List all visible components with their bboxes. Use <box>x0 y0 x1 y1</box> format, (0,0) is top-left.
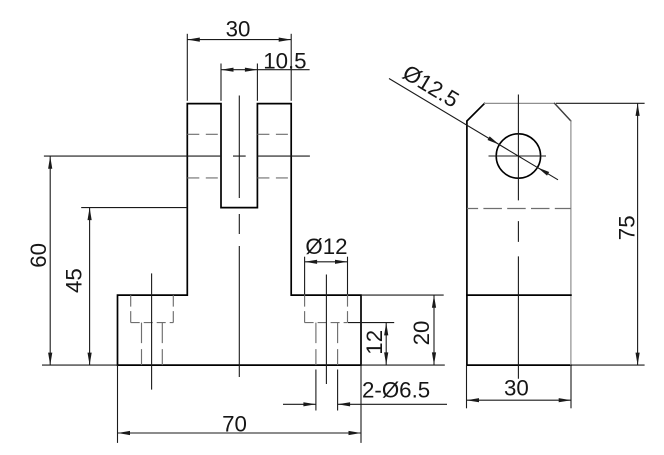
extension of bottom edge right <box>361 364 445 366</box>
dimension line 75 <box>637 103 639 365</box>
side view base-top edge (20 height) <box>467 294 571 296</box>
arrow 10.5 left <box>221 68 234 72</box>
arrow 12 up <box>384 323 388 336</box>
arrow 75 up <box>636 103 640 116</box>
hidden through hole O6.5 right hole left wall <box>315 323 317 366</box>
extension line tower right <box>290 34 292 101</box>
svg-text:10.5: 10.5 <box>263 49 306 74</box>
dimension line 45 <box>89 208 91 366</box>
svg-text:70: 70 <box>222 411 247 436</box>
dimension line 12 <box>385 323 387 365</box>
arrow O12.5 lower <box>536 166 549 176</box>
arrow O12 right <box>335 260 348 264</box>
extension line slot right <box>256 64 258 101</box>
arrow 30 top left <box>187 38 200 42</box>
left hole vertical centerline <box>151 273 153 389</box>
hidden counterbore bottom left hole <box>131 322 174 324</box>
dimension line 70 <box>118 432 362 434</box>
extension line base left down <box>117 365 119 443</box>
extension of bottom edge left <box>42 364 118 366</box>
extension line side left down <box>466 365 468 408</box>
dimension line O12 <box>305 261 348 263</box>
extension line base right down <box>360 365 362 443</box>
arrow 45 down <box>88 353 92 366</box>
extension line tower left <box>186 34 188 101</box>
hidden hole edge lower right wall <box>257 177 291 179</box>
hidden counterbore left wall of right hole <box>304 295 306 323</box>
arrow 30 side left <box>467 398 480 402</box>
arrow O12 left <box>305 260 318 264</box>
extension line side right down <box>570 365 572 408</box>
hidden hole edge lower left wall <box>187 177 221 179</box>
dimension line 2-O6.5 right tail <box>338 403 447 405</box>
arrow 20 up <box>432 295 436 308</box>
extension line counterbore depth (12 level) <box>348 322 394 324</box>
right hole vertical centerline <box>325 275 327 385</box>
arrow 2-O6.5 left <box>303 402 316 406</box>
hidden counterbore left wall of left hole <box>130 295 132 323</box>
arrow 30 side right <box>559 398 572 402</box>
svg-text:60: 60 <box>26 243 51 268</box>
arrow 20 down <box>432 352 436 365</box>
hole circle O12.5 <box>496 134 540 178</box>
circle horizontal centerline <box>489 155 547 157</box>
svg-text:20: 20 <box>409 321 434 346</box>
arrow 30 top right <box>279 38 292 42</box>
side view top edge <box>485 102 555 104</box>
arrow 12 down <box>384 352 388 365</box>
side view right chamfer <box>555 103 571 121</box>
dimension line 30 top <box>187 39 291 41</box>
svg-text:Ø12: Ø12 <box>305 234 347 259</box>
dimension line 20 <box>433 295 435 365</box>
hidden counterbore right wall of right hole <box>347 295 349 323</box>
dimension line 30 side <box>467 399 572 401</box>
extension line 45 level <box>81 207 187 209</box>
hidden through hole O6.5 left hole left wall <box>141 323 143 366</box>
front view horizontal centerline at hole axis (60 level) <box>44 155 310 157</box>
extension line slot left <box>220 64 222 101</box>
arrow 45 up <box>88 208 92 221</box>
arrow 75 down <box>636 353 640 366</box>
svg-text:75: 75 <box>614 215 639 240</box>
extension line side top (75) <box>556 102 645 104</box>
leader line O12.5 <box>389 79 558 180</box>
svg-text:45: 45 <box>62 268 87 293</box>
side view vertical centerline <box>517 95 519 379</box>
hidden counterbore bottom right hole <box>305 322 348 324</box>
svg-text:12: 12 <box>362 330 387 355</box>
side view left edge and left chamfer <box>467 103 571 365</box>
dimension line 60 <box>49 156 51 365</box>
dimension line 2-O6.5 left tail <box>283 403 316 405</box>
arrow 70 right <box>349 431 362 435</box>
svg-text:2-Ø6.5: 2-Ø6.5 <box>362 378 430 403</box>
extension line side bottom (75) <box>571 364 645 366</box>
arrow 60 up <box>48 156 52 169</box>
arrow 2-O6.5 right <box>338 402 351 406</box>
hidden through hole O6.5 left hole right wall <box>161 323 163 366</box>
hidden hole edge upper left wall <box>187 133 221 135</box>
extension of base top edge right <box>361 294 444 296</box>
arrow O12.5 upper <box>488 136 501 146</box>
svg-text:30: 30 <box>226 16 251 41</box>
hidden slot bottom in side view (45 level) <box>467 208 571 210</box>
arrow 10.5 right <box>245 68 258 72</box>
extension line counterbore left <box>304 257 306 294</box>
side view right edge <box>570 121 572 365</box>
hidden counterbore right wall of left hole <box>172 295 174 323</box>
arrow 70 left <box>118 431 131 435</box>
front view outline (T-bracket with open slot) <box>118 104 362 366</box>
svg-text:Ø12.5: Ø12.5 <box>398 60 463 113</box>
hidden hole edge upper right wall <box>257 133 291 135</box>
front view vertical centerline <box>238 96 240 378</box>
extension line counterbore right <box>347 257 349 294</box>
hidden through hole O6.5 right hole right wall <box>337 323 339 366</box>
dimension line 10.5 <box>221 69 310 71</box>
extension line O6.5 left <box>315 370 317 411</box>
svg-text:30: 30 <box>504 375 529 400</box>
extension line O6.5 right <box>337 370 339 411</box>
arrow 60 down <box>48 353 52 366</box>
